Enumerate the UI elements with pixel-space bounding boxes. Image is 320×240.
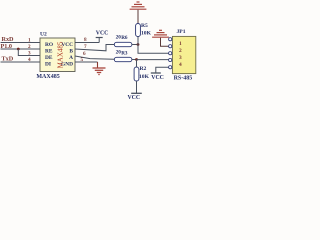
power VCC at pin 8 — [96, 31, 109, 43]
svg-text:1: 1 — [179, 41, 182, 47]
svg-text:JP1: JP1 — [177, 29, 186, 35]
svg-text:4: 4 — [28, 57, 31, 63]
svg-text:RE: RE — [45, 49, 53, 55]
svg-text:3: 3 — [179, 55, 182, 61]
wire U2 pin 6 (A) to R3 — [75, 56, 114, 59]
JP1 pin pad 3 — [169, 52, 172, 55]
svg-text:MAX485: MAX485 — [56, 41, 64, 68]
svg-text:DE: DE — [45, 55, 53, 61]
pin name VCC — [61, 42, 73, 48]
JP1 pin number 1 — [179, 41, 182, 47]
pin name DE — [45, 55, 53, 61]
JP1 pin pad 2 — [169, 45, 172, 48]
pin number 7 — [84, 44, 87, 50]
svg-text:P1.0: P1.0 — [1, 43, 13, 50]
pin number 2 — [28, 44, 31, 50]
JP1 pin pad 1 — [169, 38, 172, 41]
svg-text:1: 1 — [28, 37, 31, 43]
IC U2 MAX485 body — [40, 38, 75, 72]
connector JP1 body — [172, 36, 195, 73]
power bar symbol above R5 — [130, 2, 147, 9]
JP1 pin number 3 — [179, 55, 182, 61]
wire R3 to node A junction — [132, 59, 137, 61]
resistor R6 20 — [114, 34, 132, 46]
svg-text:2: 2 — [28, 44, 31, 50]
wire U2 pin 8 to VCC — [75, 42, 99, 44]
part type MAX485 below body — [36, 74, 59, 80]
node label RxD — [2, 36, 15, 43]
node label P1.0 — [1, 43, 13, 50]
pin number 1 — [28, 37, 31, 43]
power VCC at JP1 pin 5 — [151, 73, 164, 81]
ground — [93, 62, 106, 75]
designator U2 — [40, 31, 47, 37]
wire junction down to U2 pin 3 — [18, 49, 40, 56]
wire node A to R2 — [136, 60, 138, 68]
pin number 8 — [84, 37, 87, 43]
svg-text:RS-485: RS-485 — [174, 76, 193, 82]
svg-text:10K: 10K — [139, 74, 150, 80]
power VCC below R2 — [128, 93, 142, 101]
svg-text:4: 4 — [179, 62, 182, 68]
wire node A to JP1 pin 4 — [137, 59, 169, 61]
svg-text:A: A — [69, 55, 73, 61]
pin number 4 — [28, 57, 31, 63]
pin name A — [69, 55, 73, 61]
wire node B down to JP1 pin 3 — [138, 45, 169, 54]
svg-text:R2: R2 — [140, 66, 147, 72]
wire R6 to node B junction — [132, 44, 138, 46]
JP1 pin number 2 — [179, 48, 182, 54]
JP1 pin pad 4 — [169, 58, 172, 61]
wire RxD to U2 pin 1 — [1, 42, 41, 44]
svg-text:10K: 10K — [141, 31, 152, 37]
node label TxD — [2, 56, 14, 63]
pin number 5 — [81, 57, 84, 63]
resistor R5 10K — [136, 23, 152, 36]
pin number 3 — [28, 50, 31, 56]
power bar symbol to JP1 pin 2 — [152, 30, 169, 37]
resistor R2 10K — [134, 66, 149, 81]
svg-text:R6: R6 — [121, 35, 128, 41]
wire power bar down to JP1 pin 2 — [161, 38, 169, 46]
svg-text:VCC: VCC — [96, 31, 109, 37]
svg-text:VCC: VCC — [128, 95, 141, 101]
svg-text:R5: R5 — [141, 23, 148, 29]
wire U2 pin 5 to ground — [75, 61, 98, 63]
pin name GND — [61, 62, 73, 68]
wire P1.0 to U2 pin 2 — [1, 48, 41, 50]
svg-text:3: 3 — [28, 50, 31, 56]
resistor R3 20 — [114, 50, 132, 62]
svg-text:6: 6 — [83, 51, 86, 57]
wire U2 pin 7 (B) to R6 — [75, 45, 114, 51]
svg-text:2: 2 — [179, 48, 182, 54]
svg-text:TxD: TxD — [2, 56, 14, 63]
svg-text:RO: RO — [45, 42, 53, 48]
pin name B — [69, 49, 73, 55]
svg-text:U2: U2 — [40, 31, 47, 37]
junction on P1.0 net — [17, 48, 20, 51]
part type RS-485 — [174, 76, 193, 82]
pin number 6 — [83, 51, 86, 57]
wire R2 to VCC below — [136, 81, 138, 93]
wire R5 to node B — [137, 37, 139, 45]
junction node B — [137, 43, 140, 46]
JP1 pin number 4 — [179, 62, 182, 68]
junction node A — [135, 58, 138, 61]
wire JP1 pin 5 to VCC — [156, 67, 169, 73]
svg-text:R3: R3 — [121, 50, 128, 56]
designator JP1 — [177, 29, 186, 35]
pin name RE — [45, 49, 53, 55]
pin name DI — [45, 62, 51, 68]
wire power bar to R5 — [137, 10, 139, 24]
svg-text:VCC: VCC — [151, 75, 164, 81]
pin name RO — [45, 42, 53, 48]
svg-text:DI: DI — [45, 62, 51, 68]
svg-text:B: B — [69, 49, 73, 55]
part type MAX485 rotated inside body — [56, 41, 64, 68]
wire TxD to U2 pin 4 — [1, 61, 41, 63]
JP1 pin pad 5 — [169, 66, 172, 69]
svg-text:MAX485: MAX485 — [36, 74, 59, 80]
